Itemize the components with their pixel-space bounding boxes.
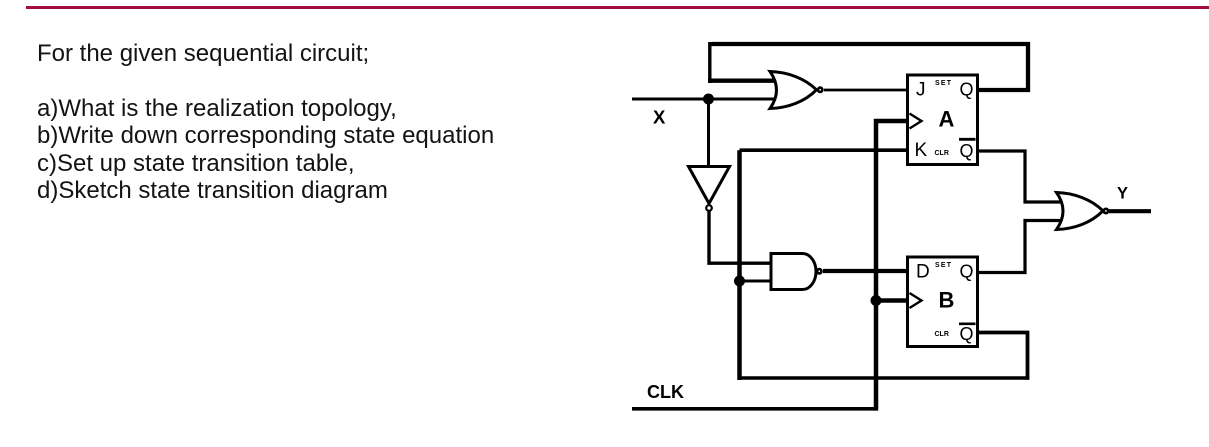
svg-text:J: J: [916, 80, 926, 101]
svg-text:Q: Q: [960, 80, 974, 100]
svg-text:Q: Q: [960, 324, 974, 344]
svg-text:Q: Q: [960, 262, 974, 282]
svg-text:CLR: CLR: [935, 331, 949, 338]
svg-text:CLK: CLK: [647, 382, 684, 402]
svg-text:CLR: CLR: [935, 150, 949, 157]
svg-text:D: D: [916, 262, 930, 283]
svg-text:Q: Q: [960, 141, 974, 161]
svg-text:SET: SET: [935, 262, 952, 269]
svg-text:SET: SET: [935, 80, 952, 87]
svg-text:Y: Y: [1117, 185, 1128, 203]
svg-text:X: X: [653, 107, 666, 128]
svg-text:B: B: [939, 288, 955, 313]
svg-text:K: K: [915, 140, 928, 161]
svg-text:A: A: [939, 107, 955, 132]
